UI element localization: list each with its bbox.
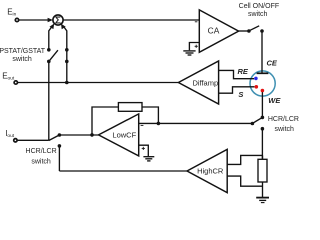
svg-text:LowCF: LowCF: [112, 130, 136, 139]
svg-text:HCR/LCR: HCR/LCR: [268, 116, 299, 123]
svg-text:switch: switch: [248, 11, 268, 18]
svg-text:PSTAT/GSTAT: PSTAT/GSTAT: [0, 48, 46, 55]
svg-text:Diffamp: Diffamp: [192, 78, 218, 87]
svg-text:CA: CA: [208, 26, 220, 36]
svg-text:Iout: Iout: [5, 129, 15, 139]
svg-text:switch: switch: [274, 126, 294, 133]
svg-text:Cell ON/OFF: Cell ON/OFF: [239, 3, 279, 10]
svg-text:switch: switch: [31, 158, 51, 165]
svg-text:CE: CE: [267, 59, 278, 68]
svg-text:S: S: [238, 90, 243, 99]
svg-text:switch: switch: [12, 56, 32, 63]
svg-text:RE: RE: [238, 67, 249, 76]
svg-text:HCR/LCR: HCR/LCR: [26, 148, 57, 155]
svg-text:Eout: Eout: [2, 71, 15, 81]
svg-text:Ein: Ein: [7, 7, 16, 17]
svg-text:HighCR: HighCR: [197, 166, 224, 175]
svg-text:Σ: Σ: [55, 15, 61, 26]
svg-text:WE: WE: [268, 96, 281, 105]
